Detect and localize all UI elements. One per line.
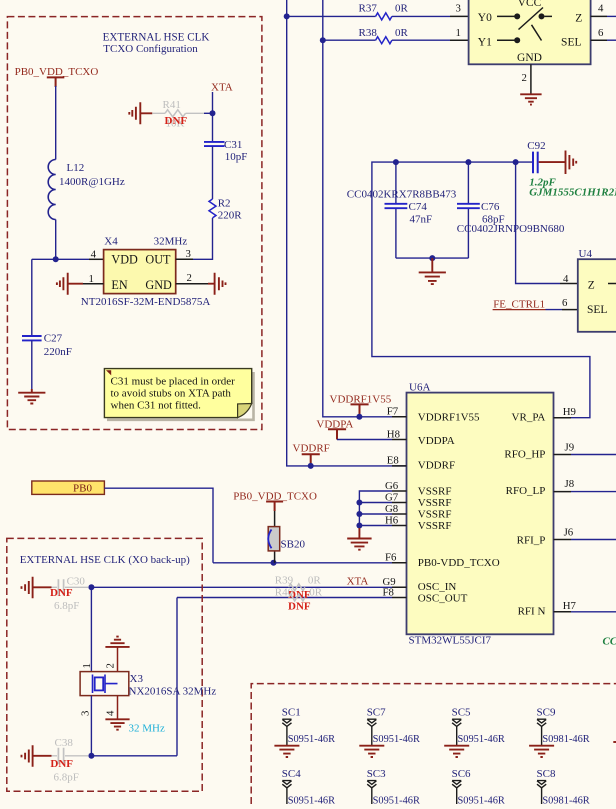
svg-text:R40: R40 [275, 587, 294, 599]
svg-text:3: 3 [80, 711, 92, 716]
svg-text:OSC_IN: OSC_IN [418, 581, 457, 593]
node junction SB20 [271, 560, 277, 566]
svg-text:SC1: SC1 [282, 707, 301, 719]
wire R2 to OUT pin 3 [193, 218, 213, 259]
svg-text:0R: 0R [309, 587, 323, 599]
svg-text:R41: R41 [163, 99, 181, 111]
svg-text:SEL: SEL [587, 304, 607, 316]
wire F6 PB0-VDD_TCXO [213, 562, 392, 564]
switch symbol [497, 8, 552, 41]
pin 4 Z wire [591, 15, 607, 17]
svg-text:VSSRF: VSSRF [418, 508, 452, 520]
ground sliver of cut-off spark gap at right edge [613, 741, 616, 743]
svg-text:1: 1 [456, 27, 461, 39]
pin 3 Y0 [450, 15, 469, 17]
dashed box EXTERNAL HSE CLK TCXO Configuration [7, 17, 262, 430]
spark gap SC1 [274, 707, 335, 757]
svg-text:VCC: VCC [518, 0, 542, 9]
power port VDDPA [316, 418, 353, 439]
svg-text:G6: G6 [385, 480, 399, 492]
svg-text:RFO_HP: RFO_HP [504, 448, 545, 460]
wire X3 pin1 [90, 587, 92, 671]
analog switch U5 (top, cut off) [469, 0, 591, 64]
wire G9 OSC_IN [91, 586, 392, 588]
spark gap SC9 [529, 707, 590, 757]
resistor R37 0R [287, 2, 450, 20]
svg-text:4: 4 [598, 3, 604, 15]
svg-text:S0951-46R: S0951-46R [288, 796, 335, 804]
svg-text:GND: GND [145, 278, 172, 292]
svg-text:6: 6 [562, 297, 568, 309]
wire C74/C76 bottom [396, 257, 469, 259]
pin stubs left black [392, 417, 407, 598]
svg-text:F8: F8 [383, 586, 394, 598]
crystal X3 NX2016SA [80, 663, 217, 734]
svg-text:VDDRF1V55: VDDRF1V55 [418, 411, 480, 423]
svg-text:H8: H8 [387, 428, 400, 440]
svg-text:SEL: SEL [561, 36, 581, 48]
node junction E8 [308, 463, 314, 469]
svg-text:OSC_OUT: OSC_OUT [418, 592, 468, 604]
svg-text:GND: GND [517, 52, 542, 64]
svg-text:SC3: SC3 [367, 768, 386, 780]
svg-text:E8: E8 [387, 455, 399, 467]
svg-text:S0981-46R: S0981-46R [542, 796, 589, 804]
svg-text:Z: Z [575, 13, 582, 25]
spark gap SC5 [444, 707, 505, 757]
svg-text:S0981-46R: S0981-46R [542, 734, 589, 745]
svg-text:47nF: 47nF [410, 214, 433, 226]
svg-text:C31: C31 [224, 139, 242, 151]
svg-text:XTA: XTA [347, 576, 369, 588]
svg-text:SB20: SB20 [281, 539, 306, 551]
svg-text:EN: EN [111, 278, 127, 292]
svg-text:VDDPA: VDDPA [418, 435, 455, 447]
svg-text:4: 4 [91, 249, 97, 261]
node junction C76 top [465, 159, 471, 165]
node junction C74 top [393, 159, 399, 165]
svg-text:DNF: DNF [50, 587, 73, 599]
svg-text:G7: G7 [385, 491, 399, 503]
svg-text:S0951-46R: S0951-46R [458, 734, 505, 745]
spark gap SC6 [452, 768, 505, 807]
wire to C27 [31, 259, 33, 336]
svg-text:0R: 0R [395, 2, 409, 14]
svg-text:SC7: SC7 [367, 707, 386, 719]
capacitor C31 10pF [204, 139, 247, 163]
svg-text:H7: H7 [563, 600, 577, 612]
inductor L12 [48, 160, 125, 220]
svg-text:DNF: DNF [50, 758, 73, 770]
svg-text:F7: F7 [387, 406, 399, 418]
node junction G8 [356, 511, 362, 517]
resistor R2 220R [209, 197, 242, 221]
svg-text:CC0402JRNPO9BN680: CC0402JRNPO9BN680 [457, 223, 565, 235]
oscillator X4 [81, 235, 211, 307]
svg-text:TCXO Configuration: TCXO Configuration [103, 43, 198, 55]
svg-text:L12: L12 [67, 162, 85, 174]
svg-text:FE_CTRL1: FE_CTRL1 [493, 299, 545, 311]
svg-text:S0951-46R: S0951-46R [288, 734, 335, 745]
svg-text:S0951-46R: S0951-46R [373, 734, 420, 745]
svg-text:C92: C92 [527, 140, 545, 152]
svg-text:STM32WL55JCI7: STM32WL55JCI7 [409, 635, 492, 647]
ground below U5 [520, 94, 541, 104]
svg-text:10pF: 10pF [225, 151, 248, 163]
svg-text:to avoid stubs on XTA path: to avoid stubs on XTA path [111, 388, 232, 400]
port PB0 [32, 481, 105, 494]
svg-text:R38: R38 [359, 27, 378, 39]
spark gap SC8 [537, 768, 590, 807]
node junction XTA/R41 [210, 110, 216, 116]
spark gap SC3 [367, 768, 420, 807]
ground VSSRF [347, 528, 371, 550]
svg-text:4: 4 [105, 710, 117, 716]
svg-text:R37: R37 [359, 2, 378, 14]
svg-text:U4: U4 [579, 248, 593, 260]
svg-text:U6A: U6A [409, 382, 430, 394]
wire H8 [337, 439, 392, 441]
pin 1 EN wire and ground [57, 273, 104, 295]
svg-text:C27: C27 [44, 333, 63, 345]
svg-text:1: 1 [81, 663, 93, 668]
svg-text:S0951-46R: S0951-46R [458, 796, 505, 804]
svg-text:C31 must be placed in order: C31 must be placed in order [111, 376, 236, 388]
pin 4 wire and ground below [105, 696, 129, 730]
wire XTA vertical [212, 92, 214, 142]
svg-text:X3: X3 [130, 673, 144, 685]
svg-text:VDDRF: VDDRF [418, 460, 455, 472]
node junction R38 [320, 37, 326, 43]
wire bottom to OSC_OUT [91, 755, 177, 757]
svg-text:R2: R2 [218, 197, 231, 209]
svg-text:EXTERNAL HSE CLK: EXTERNAL HSE CLK [103, 31, 210, 43]
wire F8 OSC_OUT [177, 598, 392, 756]
ground left of C30 [22, 577, 52, 599]
svg-text:6: 6 [598, 27, 604, 39]
wire J9 RFO_HP [571, 454, 616, 456]
capacitor C38 DNF [50, 737, 88, 784]
svg-text:0R: 0R [395, 27, 409, 39]
svg-text:H9: H9 [563, 406, 576, 418]
wire C31 to R2 [212, 147, 214, 200]
svg-text:VSSRF: VSSRF [418, 485, 452, 497]
svg-text:3: 3 [456, 3, 461, 15]
capacitor C30 DNF [50, 576, 88, 612]
node junction F7 [356, 414, 362, 420]
capacitor C92 1.2pF [527, 140, 616, 198]
pin 2 wire and ground above [105, 637, 129, 672]
svg-text:1400R@1GHz: 1400R@1GHz [59, 176, 125, 188]
wire C27 to ground [31, 341, 33, 390]
pin 2 GND wire and ground [176, 272, 226, 295]
svg-text:3: 3 [186, 248, 191, 260]
svg-text:32MHz: 32MHz [154, 235, 188, 247]
wire FE_CTRL1 to SEL pin 6 [546, 309, 563, 311]
ground left of C38 [22, 745, 52, 767]
wire PB0 to F6 net [104, 488, 213, 563]
resistor R41 DNF with ground [129, 99, 212, 130]
svg-text:0R: 0R [308, 574, 322, 586]
svg-text:DNF: DNF [165, 115, 188, 127]
svg-text:Y0: Y0 [478, 12, 492, 24]
svg-text:RFI_P: RFI_P [517, 535, 546, 547]
node junction L12/VDD/C27 [53, 256, 59, 262]
svg-text:G8: G8 [385, 503, 398, 515]
svg-text:2: 2 [522, 72, 527, 84]
capacitor C27 220nF [22, 333, 72, 359]
svg-text:J9: J9 [565, 441, 575, 453]
svg-text:when C31 not fitted.: when C31 not fitted. [111, 400, 202, 412]
svg-text:RFO_LP: RFO_LP [506, 485, 546, 497]
svg-text:32 MHz: 32 MHz [129, 722, 165, 734]
wire H7 RFI_N [571, 611, 616, 613]
ground below C74/C76 [419, 258, 446, 284]
svg-text:GJM1555C1H1R2BB01: GJM1555C1H1R2BB01 [529, 186, 616, 198]
power port VDDRF [293, 443, 330, 465]
capacitor C76 68pF [457, 162, 565, 258]
svg-text:RFI N: RFI N [518, 605, 546, 617]
pin 1 Y1 [450, 39, 469, 41]
wire VR_PA net (H9 up and across to C74/C76/C92) [372, 162, 590, 418]
svg-text:4: 4 [563, 273, 569, 285]
svg-text:Y1: Y1 [478, 36, 492, 48]
svg-text:CC0402KRX7R8BB473: CC0402KRX7R8BB473 [347, 189, 457, 201]
svg-text:DNF: DNF [288, 601, 311, 613]
note C31 must be placed [104, 369, 253, 420]
svg-text:VSSRF: VSSRF [418, 497, 452, 509]
power port PB0_VDD_TCXO [15, 66, 99, 87]
wire VSSRF bus [359, 491, 392, 535]
svg-text:NX2016SA 32MHz: NX2016SA 32MHz [129, 685, 217, 697]
node junction C30/X3 pin1 [88, 584, 94, 590]
svg-text:X4: X4 [104, 235, 118, 247]
wire vertical net to VDDRF [287, 0, 407, 466]
node junction bottom [429, 255, 435, 261]
ground below C27 [18, 389, 45, 404]
svg-text:Z: Z [588, 280, 595, 292]
svg-text:2: 2 [187, 272, 192, 284]
dashed box EXTERNAL HSE CLK (XO back-up) [7, 538, 202, 791]
wire VDD pin 4 [32, 258, 89, 260]
svg-text:220R: 220R [218, 210, 243, 222]
svg-text:C74: C74 [409, 201, 428, 213]
svg-text:C30: C30 [67, 576, 86, 588]
wire X3 pin3 down [90, 696, 92, 756]
node junction H6 [356, 523, 362, 529]
power port PB0_VDD_TCXO (SB20) [233, 490, 317, 511]
svg-text:F6: F6 [385, 552, 397, 564]
svg-text:SC8: SC8 [537, 768, 556, 780]
analog switch U4 [578, 248, 616, 332]
svg-text:2: 2 [105, 663, 117, 668]
svg-text:C76: C76 [481, 201, 500, 213]
svg-text:SC9: SC9 [537, 707, 556, 719]
pin 6 SEL wire [591, 39, 607, 41]
svg-text:OUT: OUT [145, 253, 171, 267]
wire Z net vertical to U4 [516, 162, 560, 283]
svg-text:R39: R39 [275, 574, 294, 586]
svg-text:PB0_VDD_TCXO: PB0_VDD_TCXO [15, 66, 99, 78]
wire J6 RFI_P [571, 539, 616, 541]
node junction G7 [356, 500, 362, 506]
svg-text:6.8pF: 6.8pF [54, 771, 79, 783]
solder bridge SB20 [268, 511, 305, 563]
wire vertical net to VDDRF1V55 [323, 0, 407, 417]
svg-text:VDDRF: VDDRF [293, 443, 330, 455]
svg-text:S0951-46R: S0951-46R [373, 796, 420, 804]
pin 2 GND wire [530, 64, 532, 94]
svg-text:VSSRF: VSSRF [418, 520, 452, 532]
resistor R38 0R [323, 27, 450, 44]
node junction R37 [284, 13, 290, 19]
dashed box spark gaps [251, 684, 616, 804]
wire J8 RFO_LP [571, 491, 616, 493]
svg-text:VDD: VDD [111, 253, 138, 267]
resistor R40 DNF [275, 587, 323, 613]
svg-text:C38: C38 [55, 737, 74, 749]
svg-text:PB0: PB0 [73, 482, 92, 494]
wire L12 to VDD node [55, 220, 57, 260]
IC U6A STM32WL55JCI7 [407, 382, 554, 647]
svg-text:1: 1 [89, 273, 94, 285]
svg-text:SC4: SC4 [282, 768, 301, 780]
net label FE_CTRL1 [493, 299, 546, 311]
svg-text:J6: J6 [564, 527, 574, 539]
svg-text:EXTERNAL HSE CLK (XO back-up): EXTERNAL HSE CLK (XO back-up) [20, 554, 190, 566]
pin designators right [563, 406, 577, 612]
node junction Z net [513, 159, 519, 165]
svg-text:220nF: 220nF [44, 346, 72, 358]
spark gap SC4 [282, 768, 335, 807]
svg-text:J8: J8 [565, 478, 575, 490]
capacitor C74 47nF [347, 162, 457, 258]
svg-text:SC5: SC5 [452, 707, 471, 719]
svg-text:H6: H6 [385, 514, 399, 526]
ground right of C92 [539, 151, 577, 175]
power port VDDRF1V55 [330, 393, 392, 415]
pin stubs right [554, 418, 572, 612]
resistor R39 DNF [275, 574, 322, 601]
node junction C38/X3 pin3 [88, 753, 94, 759]
svg-text:6.8pF: 6.8pF [54, 600, 79, 612]
svg-text:NT2016SF-32M-END5875A: NT2016SF-32M-END5875A [81, 296, 211, 308]
svg-text:VR_PA: VR_PA [512, 412, 546, 424]
svg-text:PB0-VDD_TCXO: PB0-VDD_TCXO [418, 557, 500, 569]
svg-text:CC0402JRNPO9BN680: CC0402JRNPO9BN680 [603, 635, 616, 647]
wire PB0_VDD_TCXO to L12 [55, 86, 57, 160]
spark gap SC7 [359, 707, 420, 757]
pin designators left [383, 406, 401, 599]
svg-text:SC6: SC6 [452, 768, 471, 780]
svg-text:XTA: XTA [211, 82, 233, 94]
